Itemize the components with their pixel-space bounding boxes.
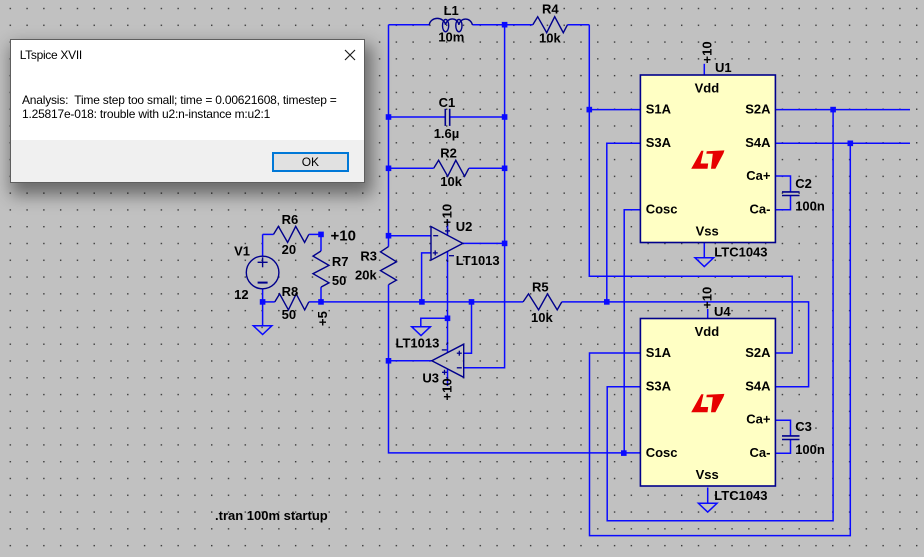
inductor L1	[429, 18, 472, 31]
wire U2 +in wire	[422, 253, 431, 302]
node R7/R8/+5	[318, 299, 324, 305]
wire L1 left lead row	[389, 24, 430, 26]
wire Ca+ U1 wire	[775, 176, 790, 192]
wire U3 output to rail	[389, 360, 432, 362]
svg-text:50: 50	[282, 307, 296, 322]
node R4 rail / S1A U1	[587, 107, 593, 113]
node U3 out / rail	[386, 358, 392, 364]
svg-text:S1A: S1A	[646, 101, 672, 116]
wire R7 top lead	[320, 234, 322, 251]
svg-text:S4A: S4A	[745, 379, 771, 394]
U1 red LT logo	[691, 150, 724, 168]
resistor R4	[533, 17, 568, 33]
svg-text:+10: +10	[439, 204, 454, 226]
wire Cosc U1 wire down to Cosc U4 row	[624, 210, 640, 453]
wire U2 V- down	[447, 252, 449, 319]
wire Vss U1 stub	[703, 242, 705, 258]
svg-text:Ca-: Ca-	[750, 445, 771, 460]
svg-text:LT1013: LT1013	[396, 336, 440, 351]
wire R8 to R5 row (U2+/U3+ node)	[309, 301, 523, 303]
dialog title	[20, 48, 82, 62]
OK button	[272, 152, 349, 172]
wire V1- to R8	[263, 301, 275, 303]
svg-text:R3: R3	[360, 248, 377, 263]
ground below U1 Vss	[695, 258, 714, 267]
svg-text:R6: R6	[282, 212, 299, 227]
svg-text:.tran 100m startup: .tran 100m startup	[215, 508, 328, 523]
svg-text:+10: +10	[331, 228, 356, 245]
IC U1 LTC1043 body	[640, 75, 775, 243]
wire U2 -in wire	[389, 235, 432, 237]
resistor R5	[523, 294, 562, 310]
wire U2 V+ stub	[447, 220, 449, 236]
svg-text:R4: R4	[542, 2, 559, 17]
dialog: LTspice XVII message box	[10, 39, 365, 184]
wire Ca- U1 wire	[775, 196, 790, 210]
svg-text:S3A: S3A	[646, 135, 672, 150]
svg-text:U4: U4	[714, 304, 731, 319]
wire S2A U1 pin wire	[775, 109, 910, 111]
svg-text:Ca-: Ca-	[750, 201, 771, 216]
capacitor C1	[445, 109, 449, 126]
op-amp U3	[432, 342, 464, 379]
svg-text:+10: +10	[439, 378, 454, 400]
capacitor C2	[782, 192, 800, 196]
svg-text:R8: R8	[282, 284, 299, 299]
resistor R6	[274, 226, 309, 242]
svg-text:Vdd: Vdd	[695, 324, 720, 339]
svg-text:S4A: S4A	[745, 135, 771, 150]
svg-text:100n: 100n	[795, 198, 825, 213]
wire R7 bottom lead	[320, 287, 322, 302]
wire U3 +in to R5 row	[464, 302, 472, 353]
node S2A U1	[830, 107, 836, 113]
node opamp V- / gnd	[445, 316, 451, 322]
wire right rail (L1/C1/R2/U2out) down to U3 -in	[464, 25, 505, 368]
svg-text:Ca+: Ca+	[746, 168, 771, 183]
wire left rail top (L1/C1/R2/U2- node)	[388, 25, 390, 247]
resistor R2	[434, 160, 469, 176]
dialog footer	[11, 140, 364, 183]
node R3 top / U2-	[386, 233, 392, 239]
wire V1 bottom lead	[262, 289, 264, 302]
svg-text:C1: C1	[439, 95, 456, 110]
svg-text:LT1013: LT1013	[456, 253, 500, 268]
svg-text:R5: R5	[532, 280, 549, 295]
svg-text:+10: +10	[700, 41, 715, 63]
resistor R8	[275, 294, 309, 310]
node Cosc U1/U4	[621, 450, 627, 456]
svg-text:R7: R7	[332, 254, 349, 269]
svg-text:Vss: Vss	[696, 223, 719, 238]
wire U3 V+ stub	[447, 369, 449, 386]
wire R4 right lead	[568, 24, 590, 26]
wire R5 right / down / to S4A-U4	[562, 302, 809, 387]
wire V1 top lead	[262, 234, 264, 256]
svg-text:Vdd: Vdd	[695, 81, 720, 96]
IC U4 LTC1043 body	[640, 319, 775, 487]
node L1/R4	[502, 22, 508, 28]
wire R6 to +10 node	[309, 233, 321, 235]
wire Vdd U1 stub	[703, 64, 705, 75]
node S4A U1	[848, 141, 854, 147]
wire S2A-U1 rail down / bottom row / to S3A-U4	[607, 110, 833, 521]
wire Vdd U4 stub	[707, 309, 709, 319]
svg-text:LTC1043: LTC1043	[714, 245, 767, 260]
svg-text:S1A: S1A	[646, 345, 672, 360]
node +10 net	[318, 232, 324, 238]
wire U3 V- up	[447, 318, 449, 352]
dialog message text	[22, 94, 337, 121]
svg-text:10k: 10k	[539, 31, 561, 46]
svg-text:R2: R2	[440, 146, 457, 161]
svg-text:U3: U3	[422, 371, 439, 386]
svg-text:100n: 100n	[795, 442, 825, 457]
resistor R7	[313, 251, 329, 287]
wire S4A U1 pin wire	[775, 142, 910, 144]
wire S4A-U1 rail down / bottom row / to S1A-U4	[590, 143, 851, 535]
node R2 left	[386, 166, 392, 172]
op-amp U2	[431, 225, 463, 263]
node V1-	[260, 299, 266, 305]
U4 red LT logo	[691, 394, 724, 412]
svg-text:10k: 10k	[531, 310, 553, 325]
svg-text:12: 12	[234, 287, 248, 302]
wire U2 output wire	[463, 242, 505, 244]
node C1 left	[386, 114, 392, 120]
svg-text:20k: 20k	[355, 267, 377, 282]
svg-text:S2A: S2A	[745, 345, 771, 360]
svg-text:20: 20	[282, 242, 296, 257]
svg-text:Ca+: Ca+	[746, 411, 771, 426]
node U2 out	[502, 241, 508, 247]
wire R4 down / S1A-U1 rail / to S2A-U4	[589, 25, 792, 353]
svg-text:Cosc: Cosc	[646, 445, 678, 460]
voltage source V1	[246, 256, 279, 289]
node R2 right	[502, 166, 508, 172]
wire V1 ground stub	[262, 302, 264, 326]
resistor R3	[381, 247, 397, 285]
svg-text:10m: 10m	[438, 30, 464, 45]
svg-text:V1: V1	[234, 244, 250, 259]
wire S1A U1 pin wire	[589, 109, 640, 111]
wire Ca- U4 wire	[775, 440, 790, 454]
svg-text:+5: +5	[315, 311, 330, 326]
dialog close button	[344, 49, 356, 61]
svg-text:S3A: S3A	[646, 379, 672, 394]
wire L1 right to R4 left	[472, 24, 532, 26]
svg-text:Vss: Vss	[696, 467, 719, 482]
wire S3A U1 wire down to R5 row	[607, 143, 641, 302]
ground below U4 Vss	[698, 503, 717, 512]
svg-text:Cosc: Cosc	[646, 201, 678, 216]
wire V- to ground	[421, 318, 448, 327]
svg-text:50: 50	[332, 273, 346, 288]
svg-text:LTC1043: LTC1043	[714, 488, 767, 503]
wire left rail bottom + Cosc U4 row	[389, 285, 641, 453]
svg-text:C2: C2	[795, 176, 812, 191]
capacitor C3	[782, 436, 800, 440]
svg-text:U2: U2	[456, 219, 473, 234]
svg-text:C3: C3	[795, 419, 812, 434]
ground below V1	[253, 326, 272, 335]
svg-text:U1: U1	[715, 60, 732, 75]
svg-text:S2A: S2A	[745, 101, 771, 116]
wire Ca+ U4 wire	[775, 420, 790, 436]
node U2+	[419, 299, 425, 305]
svg-text:1.6µ: 1.6µ	[434, 126, 460, 141]
node C1 right	[502, 114, 508, 120]
ground op-amp V- ground	[412, 327, 431, 336]
svg-text:+10: +10	[700, 287, 715, 309]
svg-text:L1: L1	[444, 3, 459, 18]
wire V1+ row to R6	[263, 233, 274, 235]
node S3A-U1 to row	[604, 299, 610, 305]
svg-text:10k: 10k	[440, 174, 462, 189]
node U3+	[469, 299, 475, 305]
wire Vss U4 stub	[707, 488, 709, 504]
